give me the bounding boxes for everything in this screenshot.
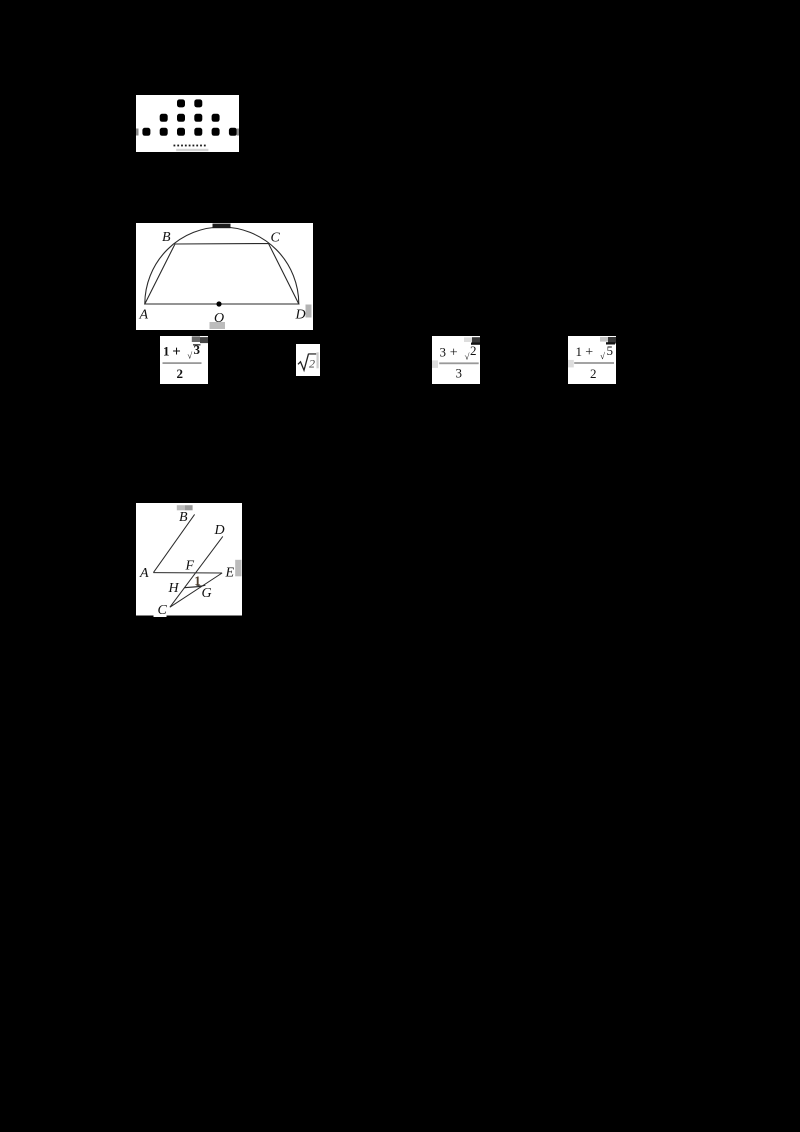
line A-B [153, 514, 194, 572]
dot row 2 [159, 114, 167, 122]
svg-text:√: √ [187, 351, 192, 361]
svg-text:2: 2 [177, 366, 184, 381]
line A-E [153, 572, 222, 574]
svg-text:D: D [294, 308, 305, 323]
svg-text:√: √ [465, 351, 470, 361]
svg-text:B: B [162, 230, 171, 245]
svg-text:E: E [224, 565, 234, 580]
svg-text:D: D [213, 523, 224, 538]
svg-text:2: 2 [470, 343, 477, 358]
grey clipped dots at edges [136, 129, 139, 136]
svg-text:√: √ [600, 351, 605, 361]
svg-text:A: A [138, 308, 148, 323]
svg-text:3: 3 [440, 344, 447, 359]
figure: semicircle with trapezoid ABCD [136, 223, 313, 330]
svg-text:3: 3 [456, 365, 463, 380]
svg-text:2: 2 [590, 366, 597, 381]
centre dot O [216, 301, 221, 306]
trapezoid [144, 244, 298, 305]
grey smudge top [177, 505, 185, 510]
svg-text:B: B [179, 510, 188, 525]
svg-text:F: F [184, 558, 194, 573]
svg-text:1: 1 [576, 344, 583, 359]
fraction (1+sqrt3)/2 [160, 336, 208, 384]
figure: crossing lines A-H [136, 503, 242, 617]
svg-text:C: C [270, 231, 280, 246]
fraction (3+sqrt2)/3 [432, 336, 480, 384]
segment H-G [184, 586, 201, 587]
dot row 1 [177, 99, 185, 107]
svg-text:5: 5 [607, 343, 614, 358]
line C-E [170, 573, 222, 607]
svg-text:+: + [172, 344, 181, 360]
smudge at arc top [212, 224, 230, 229]
grey strip under dots [176, 149, 208, 151]
grey block right of E [235, 560, 241, 577]
ellipsis tiny dots [173, 145, 205, 147]
svg-text:1: 1 [194, 573, 201, 588]
figure: triangular dot pattern [136, 95, 239, 152]
angle 1 arc [196, 585, 205, 586]
svg-text:2: 2 [309, 356, 315, 370]
grey smudge below O [209, 322, 225, 329]
svg-text:+: + [585, 345, 593, 360]
svg-text:+: + [450, 345, 458, 360]
line C-D through F [170, 536, 223, 607]
svg-text:A: A [139, 566, 149, 581]
sqrt2 [296, 344, 320, 376]
svg-text:G: G [201, 586, 211, 601]
fraction (1+sqrt5)/2 [568, 336, 616, 384]
semicircle arc [144, 227, 298, 304]
grey block right of D [305, 305, 311, 318]
svg-text:C: C [157, 603, 167, 617]
svg-text:H: H [167, 581, 179, 596]
dot row 3 [142, 128, 150, 136]
svg-text:3: 3 [194, 342, 201, 357]
svg-text:1: 1 [163, 344, 170, 359]
